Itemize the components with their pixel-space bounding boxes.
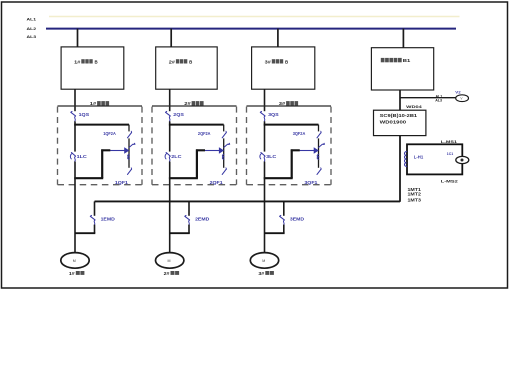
breaker 1QF2A symbol (128, 131, 132, 138)
svg-text:3LC: 3LC (266, 154, 276, 159)
breaker 3QF2A symbol (317, 131, 321, 138)
wire bus drop to transformer T1 (77, 29, 79, 48)
svg-text:3#: 3# (258, 271, 264, 276)
wire T2 to cabinet 2 (169, 89, 171, 111)
svg-text:1C1: 1C1 (447, 151, 454, 156)
svg-text:3QF1: 3QF1 (304, 180, 318, 185)
disconnector 1QS symbol (71, 111, 76, 121)
wire tie branch 1 lower (94, 225, 96, 234)
transformer T2 label 2#...B (169, 59, 192, 64)
wire T1 to cabinet 1 (74, 89, 76, 111)
label AL1 at spur (436, 94, 443, 98)
T4 label (spare transformer B1) (381, 58, 411, 63)
wire main 3 mid (264, 121, 266, 151)
wire bus drop to transformer T2 (170, 29, 172, 48)
wire tie branch 2 lower (188, 225, 190, 234)
motor M3 circle (250, 253, 278, 269)
wire tie branch 3 lower (283, 225, 285, 234)
switch 1EMD symbol (90, 215, 95, 225)
svg-text:1LC: 1LC (77, 154, 87, 159)
wire breaker column 2 upper (223, 125, 225, 132)
label 1MT1 (408, 187, 422, 192)
cabinet 1 top edge (58, 105, 143, 107)
tie line from spare feeder (95, 200, 401, 202)
contactor 2LC symbol (165, 153, 170, 162)
label 2QF2A (198, 131, 211, 136)
motor M3 label 3#.. (258, 271, 274, 276)
svg-text:AL2: AL2 (27, 26, 38, 31)
bus AL2 (phase line) (46, 28, 456, 30)
drawing frame border (2, 2, 508, 288)
svg-text:2QF2A: 2QF2A (198, 131, 211, 136)
label 1QF1 (115, 180, 129, 185)
transformer T2 box (156, 47, 218, 89)
filter box L-MS (407, 144, 462, 174)
wire T3 to cabinet 3 (264, 89, 266, 111)
wire tie branch 1 upper (94, 201, 96, 215)
busbar step vertical 1 (101, 149, 103, 178)
svg-text:B: B (189, 59, 192, 64)
spare transformer T4 box (371, 48, 433, 90)
transformer T3 label 3#...B (265, 59, 288, 64)
label 3EMD (290, 217, 304, 222)
svg-text:B1: B1 (403, 58, 411, 63)
breaker 2QF1 symbol (222, 168, 226, 175)
label 3QF2A (293, 131, 306, 136)
svg-text:3QS: 3QS (268, 112, 279, 117)
svg-text:L-MS1: L-MS1 (441, 139, 458, 144)
cabinet 2 dashed enclosure (152, 107, 237, 185)
svg-text:AL3: AL3 (435, 99, 442, 103)
svg-text:AL3: AL3 (27, 34, 38, 39)
drawout contact 1 upper chevron (129, 143, 135, 147)
cabinet 1 label 1#... (90, 101, 109, 106)
wire tie branch 2 horizontal (170, 232, 190, 234)
svg-text:B: B (95, 59, 98, 64)
wire breaker column 1 middle (128, 138, 130, 167)
label 1MT3 (408, 197, 422, 202)
label 3QF1 (304, 180, 318, 185)
busbar step horizontal 2 (196, 149, 205, 151)
rectifier box SC9 (374, 110, 426, 135)
label 1MT2 (408, 192, 422, 197)
drawout contact 2 lower chevrons (222, 154, 224, 159)
svg-text:AL1: AL1 (27, 17, 38, 22)
cabinet 3 top edge (247, 105, 332, 107)
svg-text:2EMD: 2EMD (195, 217, 209, 222)
label 1QS (79, 112, 90, 117)
wire tie branch 1 horizontal (75, 232, 95, 234)
busbar thick bottom 3 (264, 177, 293, 179)
contactor 3LC symbol (260, 153, 265, 162)
wire T4 down (399, 90, 401, 110)
label 3LC (266, 154, 276, 159)
svg-text:M: M (73, 259, 76, 263)
transformer T1 box (61, 47, 124, 89)
motor M2 circle (156, 253, 184, 269)
breaker 1QF1 symbol (128, 168, 132, 175)
motor M1 label 1#.. (69, 271, 85, 276)
label AL1 (27, 17, 38, 22)
label 1C1 (447, 151, 454, 156)
busbar thick top cabinet 2 (169, 124, 224, 126)
svg-text:1MT3: 1MT3 (408, 197, 422, 202)
svg-text:1MT2: 1MT2 (408, 192, 422, 197)
cabinet 3 label 3#... (279, 101, 298, 106)
label 3QS (268, 112, 279, 117)
voltmeter V2 circle (456, 95, 469, 102)
busbar step horizontal 3 (291, 149, 300, 151)
wire rectifier down to tie (399, 136, 401, 202)
transformer T3 box (252, 47, 315, 89)
svg-text:L-H1: L-H1 (414, 154, 424, 159)
breaker 3QF1 symbol (317, 168, 321, 175)
svg-text:1QF1: 1QF1 (115, 180, 129, 185)
label 2LC (171, 154, 181, 159)
svg-text:2#: 2# (164, 271, 170, 276)
capacitor/meter circle (456, 156, 469, 163)
busbar thick top cabinet 1 (74, 124, 129, 126)
wire blue link 2 (205, 150, 220, 152)
motor M2 label 2#.. (164, 271, 180, 276)
drawout contact 3 upper chevron (319, 143, 325, 147)
label L-MS2 (441, 178, 459, 183)
wire main 3 lower (264, 162, 266, 253)
switch 3EMD symbol (280, 215, 285, 225)
wire bus drop to spare transformer T4 (402, 29, 404, 49)
label AL2 (27, 26, 38, 31)
rectifier text line2 (380, 120, 407, 125)
svg-text:3QF2A: 3QF2A (293, 131, 306, 136)
wire breaker column 3 upper (318, 125, 320, 132)
svg-text:B: B (285, 59, 288, 64)
wire tie branch 2 upper (188, 201, 190, 215)
label L-H1 (414, 154, 424, 159)
svg-text:2#: 2# (169, 59, 176, 64)
wire blue link 1 (110, 150, 125, 152)
drawout contact 3 lower chevrons (317, 154, 319, 159)
wire voltmeter spur (400, 97, 456, 99)
wire blue link 3 (300, 150, 315, 152)
wire main 1 lower (74, 162, 76, 253)
svg-text:1#: 1# (69, 271, 75, 276)
drawout contact 2 upper chevron (224, 143, 230, 147)
label WD04 (406, 105, 423, 109)
label L-MS1 (441, 139, 458, 144)
svg-text:1QF2A: 1QF2A (103, 131, 116, 136)
bus AL1 (phase line) (49, 16, 460, 18)
label 2EMD (195, 217, 209, 222)
wire tie branch 3 horizontal (265, 232, 285, 234)
switch 2EMD symbol (185, 215, 190, 225)
label AL3 (27, 34, 38, 39)
label AL3 at spur (435, 99, 442, 103)
svg-text:WD01900: WD01900 (380, 120, 407, 125)
wire tie branch 3 upper (283, 201, 285, 215)
breaker 2QF2A symbol (222, 131, 226, 138)
svg-text:1EMD: 1EMD (101, 217, 115, 222)
transformer T1 label 1#...B (74, 59, 97, 64)
label 2QS (173, 112, 184, 117)
contactor 1LC symbol (70, 153, 75, 162)
busbar step vertical 2 (196, 149, 198, 178)
label 1QF2A (103, 131, 116, 136)
drawout arrow 1 (125, 148, 129, 153)
cabinet 2 top edge (152, 105, 237, 107)
wire main 2 mid (169, 121, 171, 151)
svg-text:3#: 3# (265, 59, 272, 64)
label V2 (455, 90, 460, 94)
svg-text:V2: V2 (455, 90, 460, 94)
svg-text:1QS: 1QS (79, 112, 90, 117)
cabinet 1 dashed enclosure (58, 107, 143, 185)
cabinet 3 dashed enclosure (247, 107, 332, 185)
disconnector 3QS symbol (260, 111, 265, 121)
svg-text:2LC: 2LC (171, 154, 181, 159)
svg-text:M: M (168, 259, 171, 263)
wire main 1 mid (74, 121, 76, 151)
drawout contact 1 lower chevrons (128, 154, 130, 159)
cabinet 2 label 2#... (184, 101, 203, 106)
svg-text:WD04: WD04 (406, 105, 423, 109)
svg-text:AL1: AL1 (436, 94, 443, 98)
busbar step vertical 3 (291, 149, 293, 178)
busbar thick bottom 2 (169, 177, 198, 179)
disconnector 2QS symbol (166, 111, 171, 121)
wire breaker column 2 middle (223, 138, 225, 167)
label 1EMD (101, 217, 115, 222)
svg-text:3EMD: 3EMD (290, 217, 304, 222)
wire breaker column 1 upper (128, 125, 130, 132)
svg-text:L-MS2: L-MS2 (441, 178, 459, 183)
rectifier text line1 (380, 113, 418, 118)
svg-text:1#: 1# (74, 59, 81, 64)
motor M1 circle (61, 253, 89, 269)
svg-text:2QF1: 2QF1 (210, 180, 224, 185)
svg-text:SC9(B)10-2B1: SC9(B)10-2B1 (380, 113, 418, 118)
busbar step horizontal 1 (101, 149, 110, 151)
busbar thick bottom 1 (74, 177, 103, 179)
wire breaker column 3 middle (318, 138, 320, 167)
svg-text:M: M (262, 259, 265, 263)
inductor L-H1 coil (405, 152, 407, 167)
label 2QF1 (210, 180, 224, 185)
busbar thick top cabinet 3 (264, 124, 319, 126)
drawout arrow 2 (219, 148, 223, 153)
wire main 2 lower (169, 162, 171, 253)
svg-text:2QS: 2QS (173, 112, 184, 117)
label 1LC (77, 154, 87, 159)
wire bus drop to transformer T3 (277, 29, 279, 48)
drawout arrow 3 (314, 148, 318, 153)
